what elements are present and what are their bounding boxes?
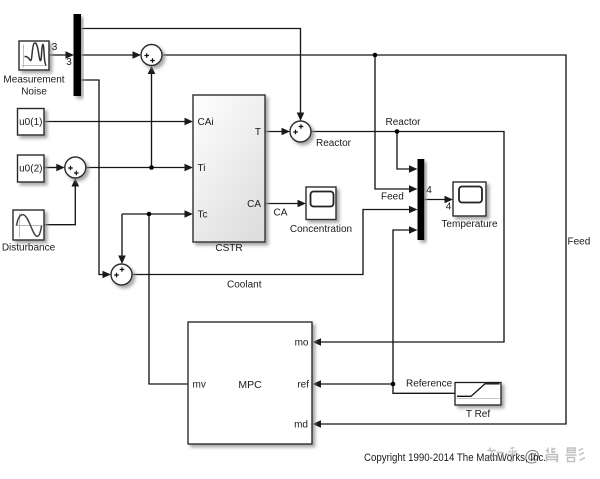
svg-text:CSTR: CSTR <box>215 243 242 254</box>
svg-text:Feed: Feed <box>381 192 404 203</box>
svg-text:Coolant: Coolant <box>227 280 262 291</box>
svg-text:4: 4 <box>426 185 432 196</box>
svg-text:CA: CA <box>274 208 288 219</box>
svg-text:md: md <box>294 420 308 431</box>
svg-text:Ti: Ti <box>198 163 206 174</box>
svg-text:CAi: CAi <box>198 117 214 128</box>
svg-text:u0(2): u0(2) <box>19 164 42 175</box>
svg-text:Feed: Feed <box>568 237 591 248</box>
svg-text:mv: mv <box>193 380 206 391</box>
svg-text:T: T <box>255 127 261 138</box>
svg-text:Reference: Reference <box>406 378 453 389</box>
svg-text:T Ref: T Ref <box>466 409 490 420</box>
svg-text:MPC: MPC <box>238 379 262 391</box>
svg-text:Measurement: Measurement <box>3 75 64 86</box>
svg-text:4: 4 <box>446 202 452 213</box>
svg-text:Tc: Tc <box>198 210 208 221</box>
svg-text:u0(1): u0(1) <box>19 117 42 128</box>
svg-text:@: @ <box>524 449 540 466</box>
svg-text:Reactor: Reactor <box>386 117 422 128</box>
svg-text:Temperature: Temperature <box>441 219 498 230</box>
svg-text:Disturbance: Disturbance <box>2 243 56 254</box>
svg-text:3: 3 <box>66 57 72 68</box>
svg-text:Noise: Noise <box>21 87 47 98</box>
svg-text:Concentration: Concentration <box>290 224 352 235</box>
svg-text:mo: mo <box>295 338 309 349</box>
svg-text:3: 3 <box>52 42 58 53</box>
svg-text:Reactor: Reactor <box>316 138 352 149</box>
svg-text:CA: CA <box>247 199 261 210</box>
svg-text:ref: ref <box>297 380 309 391</box>
